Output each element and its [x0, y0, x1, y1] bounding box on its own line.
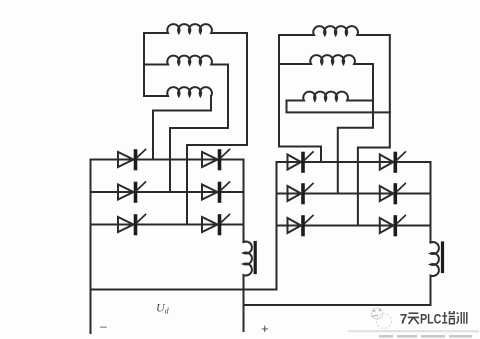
wire: left star-point vertical	[143, 33, 145, 96]
reactor L1 core bar	[254, 243, 257, 273]
thyristor VT3 (left row2 col1)	[118, 182, 146, 201]
winding W2 (left group middle)	[144, 56, 228, 65]
wire: bottom positive link	[244, 304, 431, 306]
wire: left bridge right bus upper	[243, 160, 245, 243]
wire: right group left bus vertical	[279, 35, 321, 162]
wire: W5/W6 right junction down to row2 feed	[338, 64, 373, 194]
thyristor VT5 (left row3 col1)	[118, 215, 146, 234]
wire: right bridge right bus upper	[430, 162, 432, 243]
svg-text:+: +	[261, 321, 269, 336]
wire: left bridge row2	[91, 191, 244, 193]
thyristor VT2 (left row1 col2)	[202, 150, 230, 169]
thyristor VT10 (right row2 col2)	[380, 184, 406, 203]
thyristor VT9 (right row2 col1)	[288, 184, 314, 203]
wire: W3 right lead down to row1 feed	[153, 96, 211, 160]
wire: left bridge row3	[91, 224, 244, 226]
reactor L2 core bar	[441, 243, 444, 272]
thyristor VT6 (left row3 col2)	[202, 215, 230, 234]
bottom faint text	[379, 335, 472, 338]
svg-text:Ud: Ud	[156, 301, 170, 316]
watermark underline	[348, 330, 479, 332]
watermark glyph pei	[442, 311, 455, 324]
winding W3 (left group bottom)	[144, 87, 212, 96]
watermark glyph tian	[408, 313, 419, 324]
svg-text:7: 7	[400, 311, 408, 327]
wire: W2 right lead down to row2 feed	[170, 65, 228, 193]
reactor L2 (right smoothing inductor)	[431, 242, 439, 305]
thyristor VT11 (right row3 col1)	[288, 216, 314, 235]
winding W5 (right group middle)	[279, 55, 373, 64]
wire: W1 right lead down to row3 feed	[187, 33, 247, 225]
thyristor VT8 (right row1 col2)	[380, 152, 406, 171]
wire: left bridge left bus / negative rail	[90, 160, 92, 334]
watermark logo circle	[371, 308, 391, 328]
wire: left bridge row1	[91, 159, 244, 161]
thyristor VT12 (right row3 col2)	[380, 216, 406, 235]
wire: right bridge row1	[277, 161, 431, 163]
thyristor VT4 (left row2 col2)	[202, 182, 230, 201]
wire: W4 right lead down to row3 feed	[358, 35, 390, 226]
wire: right bridge left bus	[276, 162, 278, 290]
svg-text:–: –	[100, 319, 107, 333]
reactor L1 (left smoothing inductor)	[244, 242, 252, 332]
winding W4 (right group top)	[279, 26, 390, 35]
thyristor VT7 (right row1 col1)	[288, 152, 314, 171]
wire: right bridge row3	[277, 225, 431, 227]
wire: W6 left lead wrap to W4 right end	[287, 101, 390, 113]
thyristor VT1 (left row1 col1)	[118, 150, 146, 169]
wire: right bridge row2	[277, 193, 431, 195]
winding W6 (right group bottom)	[287, 92, 374, 101]
svg-text:PLC: PLC	[420, 311, 441, 327]
watermark glyph xun	[457, 312, 467, 324]
wire: bottom negative link	[91, 289, 277, 291]
winding W1 (left group top)	[144, 24, 247, 33]
